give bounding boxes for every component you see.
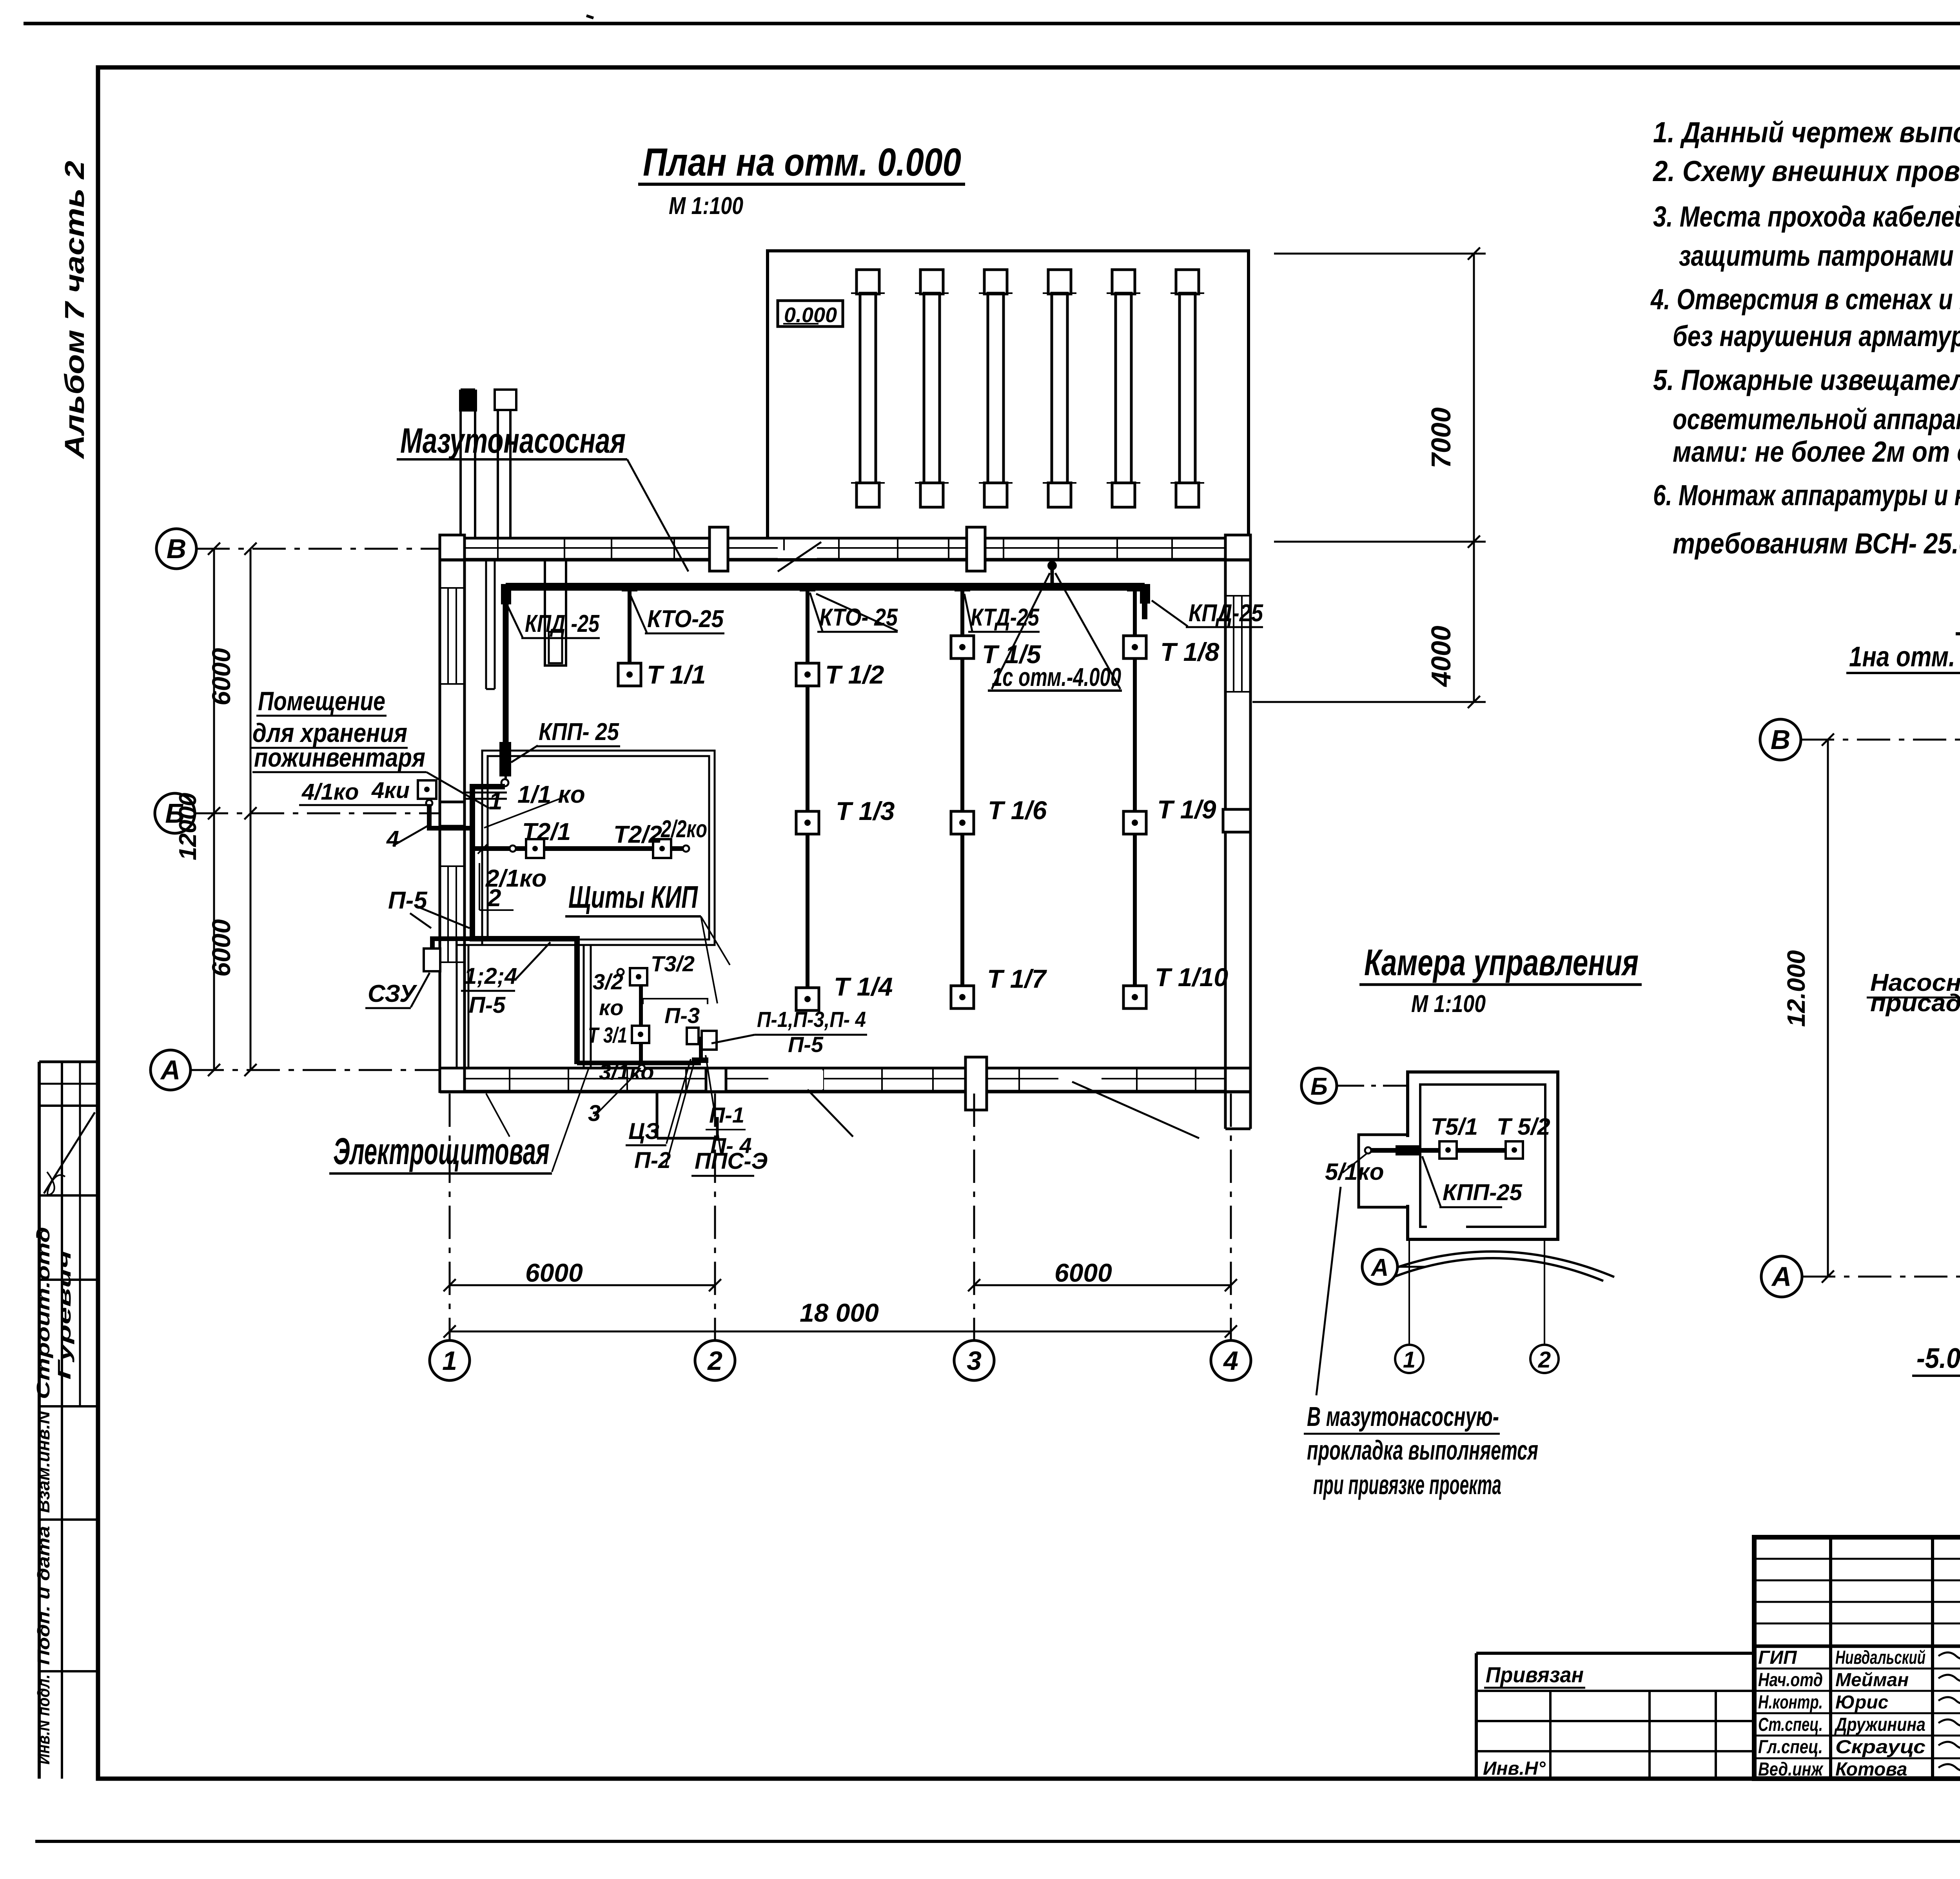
svg-text:П-2: П-2	[634, 1148, 671, 1173]
svg-text:Т 1/6: Т 1/6	[988, 796, 1047, 825]
svg-text:КПД-25: КПД-25	[1189, 600, 1263, 627]
svg-text:ЦЗ: ЦЗ	[628, 1119, 660, 1144]
svg-text:Нивдальский: Нивдальский	[1835, 1647, 1926, 1668]
svg-text:П-5: П-5	[388, 887, 428, 914]
svg-text:2. Схему внешних проводок см.: 2. Схему внешних проводок см. черт. АП л…	[1652, 155, 1960, 187]
svg-text:1. Данный чертеж выполнен на о: 1. Данный чертеж выполнен на основании ч…	[1653, 116, 1960, 149]
svg-text:12.000: 12.000	[1782, 950, 1810, 1027]
svg-text:М 1:100: М 1:100	[669, 192, 743, 219]
svg-text:Взам.инв.N: Взам.инв.N	[34, 1411, 53, 1513]
svg-text:ко: ко	[599, 995, 624, 1020]
svg-text:Строит.отд: Строит.отд	[33, 1227, 53, 1399]
svg-text:Т2/2: Т2/2	[613, 821, 662, 848]
svg-text:прокладка выполняется: прокладка выполняется	[1307, 1435, 1538, 1465]
svg-text:Дружинина: Дружинина	[1834, 1714, 1926, 1735]
svg-text:Б: Б	[1310, 1073, 1328, 1100]
svg-text:3: 3	[588, 1101, 601, 1126]
svg-text:Мейман: Мейман	[1835, 1670, 1909, 1690]
svg-text:4. Отверстия в стенах и пере: 4. Отверстия в стенах и перекрытиях выпо…	[1650, 283, 1960, 316]
svg-text:2/2ко: 2/2ко	[661, 816, 707, 843]
svg-text:6000: 6000	[525, 1258, 583, 1287]
svg-text:ППС-Э: ППС-Э	[695, 1148, 768, 1174]
svg-text:Скрауцс: Скрауцс	[1835, 1737, 1926, 1757]
svg-text:Инв.Н°: Инв.Н°	[1483, 1758, 1546, 1779]
svg-text:П-3: П-3	[664, 1003, 700, 1028]
svg-text:КТО- 25: КТО- 25	[819, 604, 898, 631]
svg-text:3/1ко: 3/1ко	[599, 1059, 654, 1084]
svg-text:при привязке проекта: при привязке проекта	[1313, 1469, 1501, 1500]
svg-text:Т 1/4: Т 1/4	[834, 972, 893, 1001]
svg-text:Т3/2: Т3/2	[651, 951, 695, 976]
svg-text:Подп. и дата: Подп. и дата	[34, 1526, 53, 1665]
svg-text:1на отм. 0.000: 1на отм. 0.000	[1849, 641, 1960, 673]
svg-text:18 000: 18 000	[800, 1298, 879, 1327]
svg-text:Т 1/10: Т 1/10	[1155, 963, 1228, 992]
svg-text:Т 1/9: Т 1/9	[1157, 795, 1216, 824]
svg-text:Камера управления: Камера управления	[1364, 942, 1639, 983]
svg-text:Т 3/1: Т 3/1	[588, 1023, 627, 1047]
svg-text:Мазутонасосная: Мазутонасосная	[400, 421, 626, 461]
svg-text:Нач.отд: Нач.отд	[1758, 1670, 1823, 1690]
svg-text:П-1,П-3,П- 4: П-1,П-3,П- 4	[757, 1007, 866, 1032]
svg-text:без нарушения арматуры.: без нарушения арматуры.	[1673, 320, 1960, 352]
svg-text:В: В	[167, 533, 187, 564]
svg-text:ГИП: ГИП	[1758, 1647, 1797, 1668]
svg-text:Котова: Котова	[1835, 1759, 1907, 1780]
svg-text:Т 1/1: Т 1/1	[647, 660, 706, 689]
svg-text:7000: 7000	[1426, 407, 1456, 468]
svg-text:1/1 ко: 1/1 ко	[517, 781, 585, 808]
svg-text:Т5/1: Т5/1	[1431, 1114, 1478, 1140]
svg-text:2: 2	[707, 1346, 722, 1376]
svg-text:Гл.спец.: Гл.спец.	[1758, 1737, 1823, 1757]
svg-text:мами: не более 2м от стены и н: мами: не более 2м от стены и не более 4,…	[1673, 435, 1960, 468]
svg-text:присадок: присадок	[1870, 990, 1960, 1017]
svg-text:2: 2	[1538, 1347, 1551, 1373]
svg-text:Т 1/2: Т 1/2	[825, 660, 884, 689]
svg-text:4: 4	[386, 826, 399, 852]
svg-text:6. Монтаж аппаратуры и кабел: 6. Монтаж аппаратуры и кабельных трасс в…	[1653, 479, 1960, 511]
svg-text:В мазутонасосную-: В мазутонасосную-	[1307, 1401, 1499, 1432]
svg-text:КПП- 25: КПП- 25	[539, 718, 619, 745]
svg-text:4000: 4000	[1426, 626, 1456, 687]
svg-text:1: 1	[442, 1346, 457, 1376]
svg-text:Электрощитовая: Электрощитовая	[333, 1130, 550, 1172]
svg-text:Т2/1: Т2/1	[522, 818, 571, 845]
svg-text:В: В	[1771, 724, 1791, 755]
svg-text:КТД-25: КТД-25	[971, 604, 1040, 631]
svg-text:М 1:100: М 1:100	[1411, 990, 1486, 1017]
svg-text:4ки: 4ки	[371, 778, 410, 803]
svg-text:6000: 6000	[1054, 1258, 1112, 1287]
svg-text:Инв.N подл.: Инв.N подл.	[34, 1674, 53, 1765]
svg-text:СЗУ: СЗУ	[368, 980, 417, 1007]
svg-text:Т 5/2: Т 5/2	[1497, 1114, 1550, 1140]
svg-text:А: А	[1370, 1254, 1389, 1281]
svg-text:3. Места прохода кабелей и: 3. Места прохода кабелей и проводов чере…	[1653, 200, 1960, 233]
svg-text:2: 2	[487, 885, 501, 912]
svg-text:КПД -25: КПД -25	[525, 610, 600, 637]
svg-text:1: 1	[489, 788, 502, 815]
svg-text:5. Пожарные извещатели устан: 5. Пожарные извещатели установить с учет…	[1653, 364, 1960, 396]
svg-text:КТО-25: КТО-25	[647, 606, 724, 633]
svg-text:Т 1/5: Т 1/5	[982, 640, 1042, 669]
svg-text:Помещение: Помещение	[258, 686, 385, 716]
svg-text:Н.контр.: Н.контр.	[1758, 1692, 1823, 1713]
svg-text:осветительной аппаратуры в с: осветительной аппаратуры в соответствии …	[1673, 403, 1960, 435]
svg-text:Юрис: Юрис	[1835, 1692, 1888, 1713]
svg-text:3: 3	[967, 1346, 982, 1376]
svg-text:План на отм. 0.000: План на отм. 0.000	[643, 140, 961, 184]
svg-text:3/2: 3/2	[593, 969, 623, 994]
svg-text:требованиям ВСН- 25.09.68-85.: требованиям ВСН- 25.09.68-85.	[1673, 527, 1960, 560]
svg-text:А: А	[160, 1055, 181, 1085]
svg-text:4: 4	[1223, 1346, 1238, 1376]
svg-text:6000: 6000	[207, 648, 236, 706]
svg-text:Альбом 7 часть 2: Альбом 7 часть 2	[59, 161, 90, 459]
svg-text:защитить патронами из труб.: защитить патронами из труб.	[1679, 239, 1960, 272]
svg-text:Вед.инж: Вед.инж	[1758, 1759, 1824, 1780]
svg-text:6000: 6000	[207, 919, 236, 977]
svg-text:Т 1/7: Т 1/7	[987, 964, 1047, 993]
svg-text:Гуревич: Гуревич	[54, 1250, 74, 1380]
svg-text:П-5: П-5	[469, 992, 506, 1018]
svg-text:12000: 12000	[174, 793, 201, 860]
svg-text:4/1ко: 4/1ко	[301, 779, 359, 805]
svg-text:КПП-25: КПП-25	[1443, 1180, 1523, 1205]
svg-text:Ст.спец.: Ст.спец.	[1758, 1714, 1823, 1735]
svg-text:1;2;4: 1;2;4	[464, 963, 517, 989]
svg-text:Привязан: Привязан	[1486, 1662, 1584, 1687]
svg-text:Щиты КИП: Щиты КИП	[568, 880, 698, 914]
svg-text:А: А	[1771, 1261, 1792, 1292]
svg-text:-5.000: -5.000	[1916, 1343, 1960, 1374]
svg-text:Т 1/8: Т 1/8	[1160, 637, 1220, 666]
svg-text:Т 1/3: Т 1/3	[836, 796, 895, 825]
svg-text:1: 1	[1403, 1347, 1416, 1373]
